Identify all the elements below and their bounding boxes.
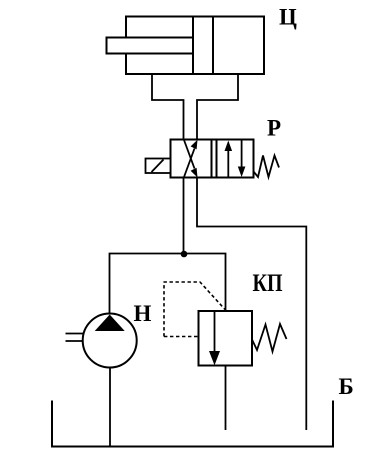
pump Н flow triangle — [95, 315, 125, 332]
wire cylinder left port — [152, 74, 184, 140]
svg-text:Б: Б — [339, 374, 354, 399]
valve Р solenoid actuator — [146, 159, 171, 174]
relief valve КП flow arrow — [209, 311, 220, 365]
tank Б — [52, 401, 333, 447]
relief valve КП pilot line (dashed) — [164, 282, 225, 337]
valve Р return spring — [254, 156, 280, 178]
wire pressure line pump to relief valve — [110, 254, 226, 314]
wire valve right port to tank return — [197, 178, 306, 431]
valve Р crossed-flow arrows (left position) — [184, 140, 198, 178]
pump Н circle — [83, 314, 137, 368]
cylinder Ц body — [126, 17, 264, 75]
cylinder Ц piston — [193, 17, 213, 75]
cylinder Ц piston rod — [107, 38, 194, 54]
svg-text:КП: КП — [253, 270, 283, 297]
junction node — [181, 251, 188, 258]
wire cylinder right port — [197, 74, 238, 140]
valve Р parallel-flow arrows (right position) — [225, 140, 246, 178]
svg-text:Н: Н — [134, 301, 152, 326]
relief valve КП body — [199, 311, 253, 366]
wire pump suction to tank — [109, 368, 111, 447]
pump Н drive shaft — [66, 334, 84, 342]
wire valve left port down to junction — [183, 178, 185, 255]
wire relief valve outlet to tank — [225, 366, 227, 431]
relief valve КП spring — [252, 324, 287, 352]
svg-text:Ц: Ц — [279, 5, 297, 30]
valve Р body — [171, 140, 254, 178]
svg-text:Р: Р — [267, 116, 281, 141]
